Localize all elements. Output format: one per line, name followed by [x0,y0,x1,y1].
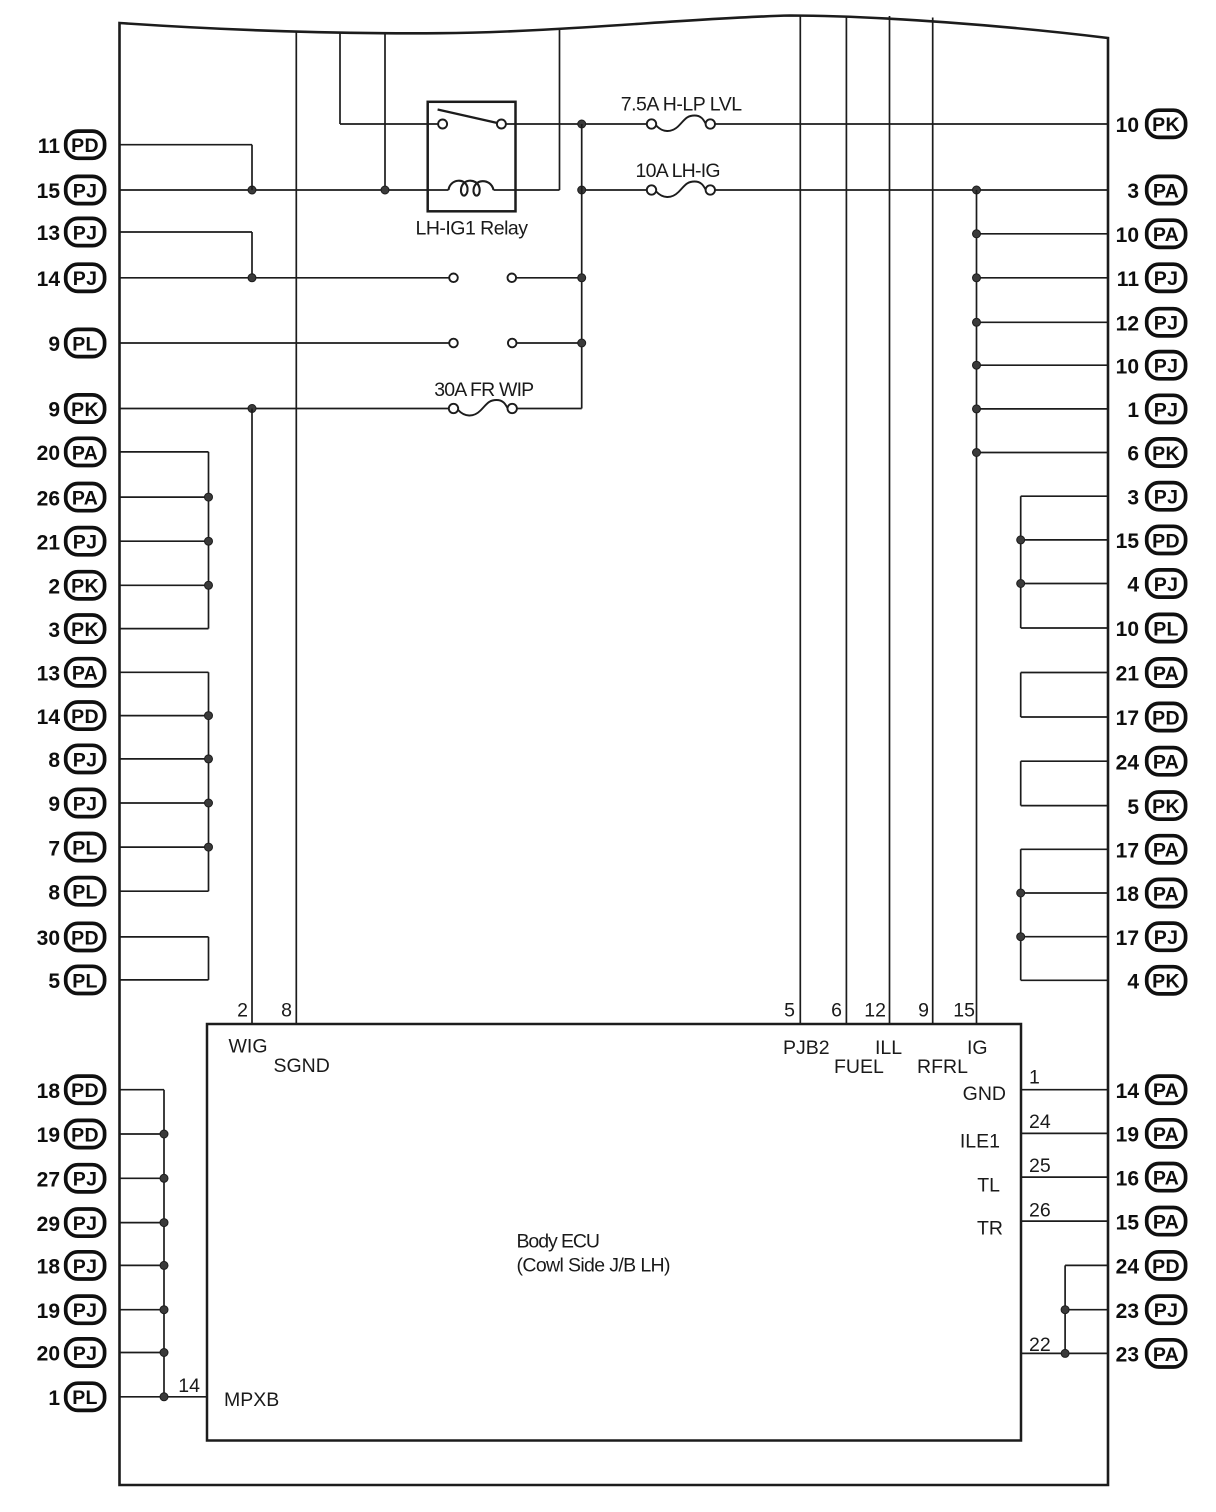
wire: right pin row y=277.8 [977,277,1109,279]
fuse 7.5A H-LP LVL [621,94,743,132]
wire: left group1 pin row y=497.1 [120,496,209,498]
pin 26 PA (left, y=497.1) [37,484,105,511]
svg-text:PK: PK [1152,114,1180,136]
pin 23 PJ (right, y=1309.7) [1116,1296,1186,1323]
junction: x=582 vertical at 10A fuse wire [578,186,586,194]
wire: pin 1 PL row to ECU pin 14 MPXB [120,1396,207,1398]
junction [160,1393,168,1401]
wire: vertical from 9 PK junction down to ECU pin 2 [251,409,253,1025]
pin 17 PJ (right, y=936.7) [1116,923,1186,950]
svg-text:PJ: PJ [1154,487,1178,509]
svg-text:ILL: ILL [875,1037,902,1059]
wire: left group2 pin row y=715.6 [120,715,209,717]
wire: relay switch row from corner x=340 to left contact [340,123,438,125]
svg-text:PK: PK [1152,443,1180,465]
wire: 30A fuse to corner x=582 [517,408,582,410]
junction [160,1306,168,1314]
svg-text:PD: PD [71,1080,99,1102]
svg-text:17: 17 [1116,707,1139,730]
svg-text:PA: PA [1153,663,1179,685]
svg-text:PA: PA [1153,1212,1179,1234]
svg-text:PL: PL [72,1387,98,1409]
svg-text:23: 23 [1116,1300,1139,1323]
wire: right bus group4 [1020,849,1022,980]
junction: 11 PD drop joins 15 PJ wire [248,186,256,194]
junction [160,1261,168,1269]
svg-text:TL: TL [977,1175,1000,1197]
junction: right bus top at 3 PA wire [973,186,981,194]
svg-text:PA: PA [72,442,98,464]
svg-text:19: 19 [37,1124,60,1147]
pin 14 PD (left, y=715.6) [37,702,105,729]
svg-text:10: 10 [1116,618,1139,641]
junction [160,1130,168,1138]
wire: right pin row y=322.3 [977,321,1109,323]
svg-text:11: 11 [38,135,61,158]
wire: pin 14 PJ to relay lower contact [120,277,449,279]
wire: bottom-left pin row y=1352.5 [120,1352,164,1354]
wire: vertical feed from top border to ECU pin 8 [295,32,297,1024]
svg-text:25: 25 [1029,1155,1051,1177]
junction: 14 PJ row joins vertical drop [578,274,586,282]
svg-text:PJ: PJ [1154,356,1178,378]
pin 29 PJ (left, y=1222.6) [37,1209,105,1236]
pin 30 PD (left, y=936.9) [37,923,105,950]
svg-text:PA: PA [1153,1168,1179,1190]
svg-text:TR: TR [977,1218,1003,1240]
junction [1061,1349,1069,1357]
pin 27 PJ (left, y=1178.3) [37,1165,105,1192]
svg-text:15: 15 [1116,1211,1140,1234]
pin 11 PJ (right, y=277.8) [1117,264,1186,291]
junction [973,361,981,369]
wire: vertical line from top border down to relay coil output [559,29,561,191]
wire: bottom-left pin row y=1222.6 [120,1222,164,1224]
svg-text:7: 7 [48,837,60,860]
svg-text:16: 16 [1116,1167,1139,1190]
pin 10 PL (right, y=628.0) [1116,614,1186,641]
pin 4 PJ (right, y=583.5) [1127,570,1185,597]
svg-text:MPXB: MPXB [224,1389,279,1411]
svg-text:IG: IG [967,1037,988,1059]
svg-text:11: 11 [1117,268,1140,291]
wire: 13 PJ drop to 14 PJ [251,232,253,278]
junction [160,1349,168,1357]
pin 10 PK (right, y=123.8) [1116,110,1186,137]
junction [205,799,213,807]
svg-text:13: 13 [37,222,60,245]
junction [973,318,981,326]
svg-text:4: 4 [1127,574,1139,597]
svg-text:6: 6 [831,1000,842,1022]
pin 18 PD (left, y=1089.7) [37,1076,105,1103]
pin 18 PA (right, y=893.0) [1116,879,1186,906]
pin 9 PL (left, y=343) [48,329,104,356]
wire: left group2 pin row y=758.9 [120,758,209,760]
pin 12 PJ (right, y=322.3) [1116,309,1186,336]
wire: relay coil to corner x=559.5 [494,189,560,191]
svg-text:PJ: PJ [73,1169,97,1191]
svg-text:12: 12 [864,1000,886,1022]
svg-text:5: 5 [784,1000,795,1022]
pin 15 PA (right, y=1221.1) [1116,1208,1186,1235]
wire: left pin 15 PJ to relay coil [120,189,449,191]
pin 1 PJ (right, y=408.9) [1127,395,1185,422]
pin 8 PJ (left, y=758.9) [48,745,104,772]
svg-text:PA: PA [1153,180,1179,202]
wire: right pin row y=408.9 [977,408,1109,410]
svg-text:ILE1: ILE1 [960,1131,1000,1153]
svg-text:21: 21 [1116,663,1140,686]
junction [205,755,213,763]
pin 13 PJ (left, y=232) [37,218,105,245]
svg-text:LH-IG1 Relay: LH-IG1 Relay [416,218,529,240]
pin 3 PK (left, y=628.6) [48,615,104,642]
svg-text:3: 3 [48,619,60,642]
pin 17 PD (right, y=717.0) [1116,703,1186,730]
outer border frame with wavy top edge [120,16,1109,1486]
wire: left bus x=208.5 group2 [208,672,210,891]
wire: left group1 pin row y=628.6 [120,628,209,630]
junction [160,1219,168,1227]
svg-text:PK: PK [71,619,99,641]
svg-text:8: 8 [48,749,60,772]
wire: right pin row y=452.5 [977,452,1109,454]
svg-text:PJB2: PJB2 [783,1037,830,1059]
wire: right bus group3 [1020,761,1022,805]
wire: vertical feed from top border to ECU pin 9 (RFRL) [932,18,934,1025]
svg-text:18: 18 [37,1080,61,1103]
pin 7 PL (left, y=847.1) [48,834,104,861]
contact terminal (9 PL row, right) [508,339,517,348]
relay switch contact (right) [497,120,506,129]
wire: 10A fuse to right border pin 3 PA [715,189,1108,191]
wire: ECU pin 1 GND to 14 PA [1021,1089,1108,1091]
svg-text:1: 1 [1127,399,1139,422]
svg-text:12: 12 [1116,313,1139,336]
wire: bottom-left bus x=164 [163,1090,165,1397]
svg-text:10: 10 [1116,224,1139,247]
svg-text:14: 14 [1116,1080,1140,1103]
wire: pin 23 PJ row [1065,1309,1108,1311]
svg-text:GND: GND [963,1083,1006,1105]
wire: right group4 pin row y=980.3 [1021,979,1108,981]
svg-text:14: 14 [178,1375,200,1397]
wire: pin 13 PJ [120,231,252,233]
pin 5 PK (right, y=805.6) [1127,792,1185,819]
pin 9 PK (left, y=408.5) [48,395,104,422]
pin 13 PA (left, y=672.3) [37,659,105,686]
svg-text:PJ: PJ [73,1213,97,1235]
svg-text:PA: PA [1153,1124,1179,1146]
fuse 10A LH-IG [636,160,721,197]
svg-text:PD: PD [1152,1256,1180,1278]
wire: left group1 pin row y=585.3 [120,584,209,586]
wire: left group1 pin row y=541.2 [120,540,209,542]
relay switch blade [438,110,498,124]
svg-text:9: 9 [48,793,60,816]
svg-text:PJ: PJ [1154,313,1178,335]
junction [1061,1306,1069,1314]
svg-text:PD: PD [71,1124,99,1146]
svg-text:19: 19 [37,1300,60,1323]
wire: pin 11 PD [120,144,252,146]
svg-text:9: 9 [918,1000,929,1022]
svg-text:PL: PL [72,838,98,860]
junction [973,230,981,238]
svg-text:PJ: PJ [73,180,97,202]
pin 24 PA (right, y=761.2) [1116,748,1186,775]
svg-text:PA: PA [72,488,98,510]
svg-text:PJ: PJ [1154,927,1178,949]
relay LH-IG1 box [428,102,516,212]
svg-text:10A LH-IG: 10A LH-IG [636,160,721,182]
svg-text:2: 2 [237,1000,248,1022]
svg-text:PL: PL [72,882,98,904]
svg-text:PA: PA [1153,752,1179,774]
svg-text:PJ: PJ [73,532,97,554]
svg-text:PD: PD [71,706,99,728]
svg-text:24: 24 [1116,1256,1140,1279]
wire: ECU pin 25 TL to 16 PA [1021,1176,1108,1178]
svg-text:Body ECU: Body ECU [517,1231,601,1253]
junction [205,493,213,501]
pin 14 PJ (left, y=277.8) [37,264,105,291]
wire: left bus x=208.5 group1 [208,452,210,629]
svg-text:PA: PA [1153,224,1179,246]
svg-text:15: 15 [37,180,61,203]
junction [205,537,213,545]
wire: vertical feed from top border to ECU pin 12 (ILL) [889,16,891,1024]
wire: right group3 pin row y=805.6 [1021,805,1108,807]
wire: right pin row y=233.8 [977,233,1109,235]
wire: right group4 pin row y=893.0 [1021,892,1108,894]
wire: left bus x=208.5 group3 [208,937,210,980]
svg-text:10: 10 [1116,114,1139,137]
wire: bottom-left pin row y=1134 [120,1133,164,1135]
wire: right group1 pin row y=583.5 [1021,583,1108,585]
wire: left group2 pin row y=891.2 [120,890,209,892]
svg-text:10: 10 [1116,355,1139,378]
svg-text:5: 5 [1127,796,1139,819]
fuse 30A FR WIP [434,379,534,416]
wire: right group1 pin row y=496.2 [1021,495,1108,497]
pin 17 PA (right, y=849.3) [1116,836,1186,863]
svg-text:27: 27 [37,1169,60,1192]
svg-text:SGND: SGND [274,1055,330,1077]
svg-text:PJ: PJ [73,749,97,771]
wire: vertical feed from top border to ECU pin 6 (FUEL) [845,16,847,1024]
svg-text:17: 17 [1116,927,1139,950]
pin 18 PJ (left, y=1265.4) [37,1252,105,1279]
pin 19 PD (left, y=1134) [37,1120,105,1147]
svg-text:4: 4 [1127,971,1139,994]
pin 10 PA (right, y=233.8) [1116,220,1186,247]
svg-text:29: 29 [37,1213,60,1236]
relay coil [449,181,494,196]
wire: pin 9 PK to 30A fuse [120,408,449,410]
wire: right group4 pin row y=849.3 [1021,848,1108,850]
svg-text:PJ: PJ [1154,574,1178,596]
svg-text:PA: PA [72,663,98,685]
wire: bottom-left pin row y=1309.7 [120,1309,164,1311]
wire: left group2 pin row y=803 [120,802,209,804]
wire: right bus x=976.5 down to ECU pin 15 IG [976,190,978,1024]
pin 5 PL (left, y=979.9) [48,966,104,993]
svg-text:8: 8 [48,881,60,904]
pin 15 PJ (left, y=190) [37,176,105,203]
svg-text:2: 2 [48,576,60,599]
svg-text:1: 1 [48,1387,60,1410]
pin 21 PJ (left, y=541.2) [37,528,105,555]
wire: right group3 pin row y=761.2 [1021,760,1108,762]
svg-text:PJ: PJ [73,793,97,815]
pin 4 PK (right, y=980.3) [1127,967,1185,994]
svg-text:PA: PA [1153,1344,1179,1366]
wire: right group1 pin row y=628.0 [1021,627,1108,629]
svg-text:PL: PL [72,333,98,355]
svg-text:PL: PL [1153,618,1179,640]
wire: vertical drop x=582 from switch wire to 30A fuse wire [581,124,583,409]
svg-text:9: 9 [48,399,60,422]
pin 24 PD (right, y=1265.4) [1116,1252,1186,1279]
junction [1017,933,1025,941]
wire: contact to vertical drop [517,342,582,344]
junction [160,1174,168,1182]
pin 15 PD (right, y=539.9) [1116,526,1186,553]
svg-text:3: 3 [1127,486,1139,509]
svg-text:20: 20 [37,442,60,465]
wire: pin 9 PL to contact [120,342,449,344]
svg-text:14: 14 [37,706,61,729]
svg-text:19: 19 [1116,1124,1139,1147]
junction [973,405,981,413]
svg-text:PA: PA [1153,1080,1179,1102]
pin 14 PA (right, y=1089.7) [1116,1076,1186,1103]
wire: vertical feed from top border to coil wire junction [384,33,386,190]
wire: bottom-left pin row y=1089.7 [120,1089,164,1091]
svg-text:PJ: PJ [1154,399,1178,421]
pin 3 PA (right, y=190) [1127,176,1185,203]
junction [205,712,213,720]
svg-text:(Cowl Side J/B LH): (Cowl Side J/B LH) [517,1255,671,1277]
svg-text:17: 17 [1116,840,1139,863]
svg-text:30A FR WIP: 30A FR WIP [434,379,534,401]
svg-text:PL: PL [72,970,98,992]
contact terminal (14 PJ row, right) [508,274,517,283]
svg-text:8: 8 [281,1000,292,1022]
pin 6 PK (right, y=452.5) [1127,439,1185,466]
svg-text:26: 26 [37,487,60,510]
wire: right group2 pin row y=717.0 [1021,716,1108,718]
wire: right bus group1 [1020,496,1022,628]
svg-text:PJ: PJ [73,1256,97,1278]
junction [1017,536,1025,544]
wire: left group3 pin row y=979.9 [120,979,209,981]
wire: right group4 pin row y=936.7 [1021,936,1108,938]
pin 23 PA (right, y=1353.4) [1116,1340,1186,1367]
pin 10 PJ (right, y=365.2) [1116,352,1186,379]
ECU: Body ECU (Cowl Side J/B LH) box [207,1024,1021,1441]
wire: right group1 pin row y=539.9 [1021,539,1108,541]
wire: left group2 pin row y=847.1 [120,846,209,848]
svg-text:7.5A H-LP LVL: 7.5A H-LP LVL [621,94,743,116]
svg-text:PA: PA [1153,840,1179,862]
svg-text:18: 18 [37,1256,61,1279]
svg-text:PJ: PJ [73,1343,97,1365]
wire: bottom-left pin row y=1265.4 [120,1264,164,1266]
contact terminal (14 PJ row, left) [449,274,458,283]
junction: switch wire / vertical drop x=582 [578,120,586,128]
svg-text:24: 24 [1029,1111,1051,1133]
svg-text:24: 24 [1116,751,1140,774]
wire: right pin row y=365.2 [977,364,1109,366]
pin 3 PJ (right, y=496.2) [1127,483,1185,510]
wire: ECU pin 22 to 23 PA [1021,1352,1108,1354]
pin 19 PJ (left, y=1309.7) [37,1296,105,1323]
svg-text:PK: PK [1152,796,1180,818]
wire: right bottom bus x=1065 [1064,1265,1066,1353]
svg-text:15: 15 [1116,530,1140,553]
svg-text:PD: PD [1152,530,1180,552]
svg-text:20: 20 [37,1343,60,1366]
svg-text:23: 23 [1116,1344,1139,1367]
junction [973,274,981,282]
svg-text:15: 15 [953,1000,975,1022]
wire: 11 PD drop to 15 PJ [251,145,253,190]
junction [205,843,213,851]
junction [205,581,213,589]
relay switch contact (left) [438,120,447,129]
svg-text:PD: PD [1152,707,1180,729]
svg-text:5: 5 [48,970,60,993]
pin 1 PL (left, y=1396.8) [48,1383,104,1410]
svg-text:18: 18 [1116,883,1140,906]
wire: vertical feed from top border to ECU pin 5 (PJB2) [799,16,801,1024]
pin 20 PJ (left, y=1352.5) [37,1339,105,1366]
ECU name label [517,1231,671,1277]
contact terminal (9 PL row, left) [449,339,458,348]
junction [1017,580,1025,588]
svg-text:21: 21 [37,531,61,554]
svg-text:9: 9 [48,333,60,356]
junction [1017,889,1025,897]
wire: 7.5A fuse to right border pin 10 PK [715,123,1108,125]
svg-text:30: 30 [37,927,60,950]
svg-text:PK: PK [71,399,99,421]
pin 2 PK (left, y=585.3) [48,572,104,599]
svg-text:6: 6 [1127,443,1139,466]
svg-text:PA: PA [1153,883,1179,905]
wire: right group2 pin row y=672.5 [1021,672,1108,674]
wire: relay switch output to 7.5A fuse [506,123,647,125]
svg-text:PJ: PJ [73,222,97,244]
wire: ECU pin 24 ILE1 to 19 PA [1021,1132,1108,1134]
svg-text:14: 14 [37,268,61,291]
wire: left group1 pin row y=451.9 [120,451,209,453]
wire: pin 24 PD row [1065,1264,1108,1266]
pin 19 PA (right, y=1133.4) [1116,1120,1186,1147]
junction: top feed x=385 joins coil wire [381,186,389,194]
junction: 13 PJ drop joins 14 PJ wire [248,274,256,282]
pin 9 PJ (left, y=803) [48,789,104,816]
svg-text:1: 1 [1029,1067,1040,1089]
svg-text:PJ: PJ [73,268,97,290]
wire: left group3 pin row y=936.9 [120,936,209,938]
pin 11 PD (left, y=144.7) [38,131,105,158]
svg-text:PD: PD [71,135,99,157]
wire: bottom-left pin row y=1178.3 [120,1177,164,1179]
